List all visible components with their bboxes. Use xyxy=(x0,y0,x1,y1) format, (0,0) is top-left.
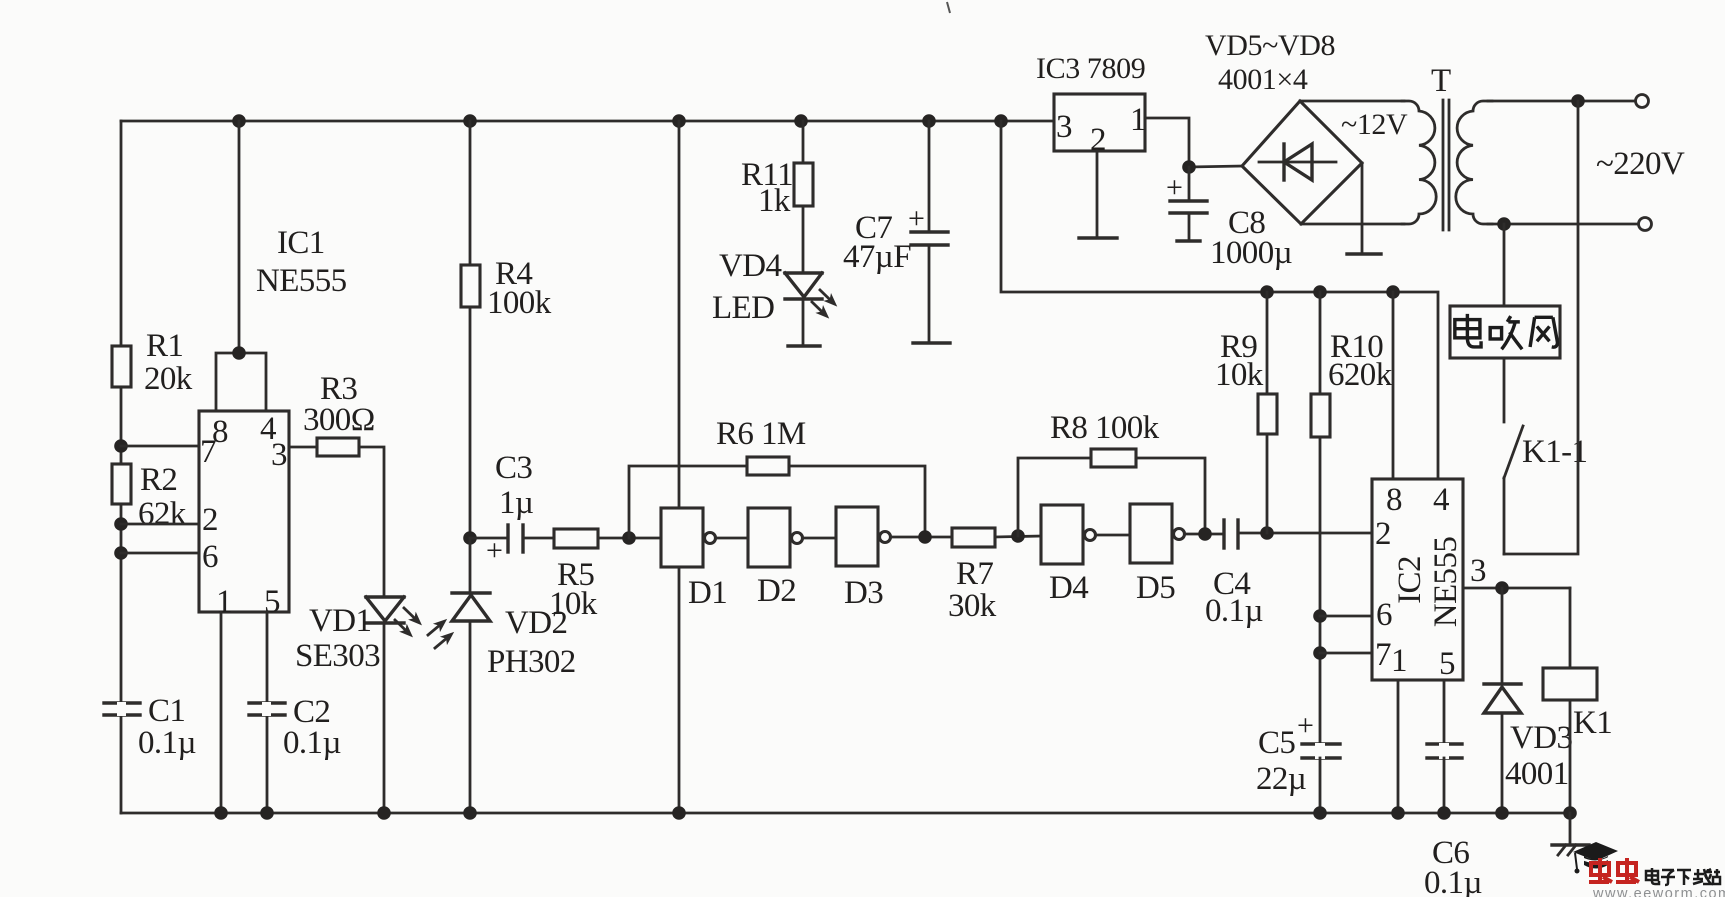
wire pin 7 stub IC2 xyxy=(1320,652,1372,655)
resistor R5 xyxy=(523,529,661,622)
svg-text:D4: D4 xyxy=(1049,570,1088,606)
wire pin 2 stub xyxy=(121,523,199,526)
wire +9V top rail xyxy=(121,120,1054,123)
svg-text:IC2: IC2 xyxy=(1392,556,1428,604)
gate D1 inverter xyxy=(661,508,727,611)
capacitor C6 xyxy=(1424,680,1482,897)
node VD1/ground junction xyxy=(377,806,391,820)
svg-text:1: 1 xyxy=(1391,643,1408,679)
wire D4 out to D5 in xyxy=(1096,534,1130,537)
svg-text:R2: R2 xyxy=(140,462,177,498)
node R2/pin2 junction xyxy=(114,517,128,531)
label 吹 (heater box char 2) xyxy=(1490,316,1522,349)
node top-rail / R4 junction xyxy=(463,114,477,128)
svg-text:7: 7 xyxy=(1375,637,1392,673)
watermark 载 small xyxy=(1693,869,1711,884)
wire pin 6 stub xyxy=(121,552,199,555)
wire IC1 pins 8-4 supply connector xyxy=(238,121,241,353)
svg-text:+: + xyxy=(1166,171,1183,204)
watermark 电 small xyxy=(1646,868,1659,884)
node 220V bottom / heater junction xyxy=(1497,217,1511,231)
svg-text:30k: 30k xyxy=(948,588,997,624)
svg-text:300Ω: 300Ω xyxy=(303,402,375,438)
svg-text:3: 3 xyxy=(1470,553,1487,589)
svg-text:0.1µ: 0.1µ xyxy=(138,725,196,761)
svg-text:2: 2 xyxy=(202,502,219,538)
resistor R8 feedback loop xyxy=(1018,410,1205,536)
node R9/pin2 junction xyxy=(1260,526,1274,540)
node top-rail / C7 junction xyxy=(922,114,936,128)
svg-text:0.1µ: 0.1µ xyxy=(1424,865,1482,897)
wire pin 5 down xyxy=(266,612,269,813)
node pin1 IC2/ground junction xyxy=(1391,806,1405,820)
node VD2/ground junction xyxy=(463,806,477,820)
op IC1 NE555 box xyxy=(199,411,289,612)
wire D1 out to D2 in xyxy=(716,537,748,540)
svg-text:IC1: IC1 xyxy=(277,225,325,261)
capacitor C2 xyxy=(249,694,341,761)
scan artifact top xyxy=(947,2,950,13)
node 220V top / K1-1 junction xyxy=(1571,94,1585,108)
load box heater (hair dryer) xyxy=(1450,224,1560,358)
wire D5 out to C4 xyxy=(1185,533,1224,536)
svg-text:1µ: 1µ xyxy=(499,485,533,521)
capacitor C4 xyxy=(1205,520,1263,629)
node R5/D1/R6 junction xyxy=(622,531,636,545)
VD2 light arrows xyxy=(424,615,450,639)
svg-text:T: T xyxy=(1431,63,1451,99)
node top-rail / D1 supply junction xyxy=(672,114,686,128)
svg-text:VD4: VD4 xyxy=(719,248,781,284)
capacitor C5 xyxy=(1256,709,1340,813)
wire IC2 pin 3 output xyxy=(1463,587,1570,590)
gate D5 inverter xyxy=(1130,504,1185,606)
wire D3 out to R7 xyxy=(891,536,952,539)
svg-text:2: 2 xyxy=(1375,516,1392,552)
wire IC2 pin 1 to ground xyxy=(1397,680,1400,813)
svg-text:D1: D1 xyxy=(688,575,727,611)
svg-text:www.eeworm.com: www.eeworm.com xyxy=(1592,886,1725,897)
svg-text:20k: 20k xyxy=(144,361,193,397)
node C2/ground junction xyxy=(260,806,274,820)
svg-text:47µF: 47µF xyxy=(843,239,911,275)
node VD3/ground junction xyxy=(1495,806,1509,820)
svg-text:NE555: NE555 xyxy=(1428,537,1464,628)
terminal 220V bottom xyxy=(1639,218,1652,231)
capacitor C3 xyxy=(470,450,533,567)
svg-text:0.1µ: 0.1µ xyxy=(283,725,341,761)
resistor R10 xyxy=(1311,292,1393,744)
svg-text:7: 7 xyxy=(200,434,217,470)
node top-rail / R11 junction xyxy=(794,114,808,128)
bridge rectifier VD5~VD8 xyxy=(1205,29,1362,224)
svg-text:IC3 7809: IC3 7809 xyxy=(1036,52,1145,85)
svg-text:VD5~VD8: VD5~VD8 xyxy=(1205,29,1335,62)
svg-text:C1: C1 xyxy=(148,693,185,729)
wire bridge top to transformer primary xyxy=(1300,100,1404,103)
svg-text:1: 1 xyxy=(216,584,233,620)
node R10/pin7 junction xyxy=(1313,646,1327,660)
svg-text:4001×4: 4001×4 xyxy=(1218,63,1308,96)
node top-rail / IC1 supply junction xyxy=(232,114,246,128)
wire secondary bottom to 220V terminal xyxy=(1488,223,1638,226)
terminal 220V top xyxy=(1636,95,1649,108)
svg-text:C3: C3 xyxy=(495,450,532,486)
wire IC3 pin 2 to ground xyxy=(1096,151,1099,238)
resistor R11 xyxy=(741,121,813,272)
node R1/pin7 junction xyxy=(114,439,128,453)
svg-text:620k: 620k xyxy=(1328,357,1393,393)
svg-text:22µ: 22µ xyxy=(1256,761,1306,797)
VD4 light arrows xyxy=(816,286,841,311)
watermark 子 small xyxy=(1661,870,1675,885)
node D5/R8 junction xyxy=(1198,527,1212,541)
resistor R9 xyxy=(1215,292,1277,533)
svg-text:1k: 1k xyxy=(758,183,791,219)
resistor R3 xyxy=(317,438,359,456)
resistor R4 xyxy=(461,121,552,538)
svg-text:6: 6 xyxy=(202,539,219,575)
wire pin 1 to ground xyxy=(220,612,223,813)
svg-text:D3: D3 xyxy=(844,575,883,611)
diode VD2 PH302 photodiode xyxy=(452,538,576,813)
wire R3 to VD1 xyxy=(359,447,384,596)
wire K1-1 return to 220V line xyxy=(1504,101,1578,554)
diode VD4 LED xyxy=(712,248,822,346)
node pin6 junction xyxy=(114,546,128,560)
wire ground bottom rail xyxy=(121,812,1570,815)
wire pin 6 stub IC2 xyxy=(1320,615,1372,618)
wire pin 3 stub xyxy=(289,446,317,449)
svg-text:62k: 62k xyxy=(138,496,187,532)
capacitor C8 xyxy=(1166,167,1292,271)
svg-text:10k: 10k xyxy=(1215,357,1264,393)
capacitor C7 xyxy=(843,121,948,342)
gate D3 inverter xyxy=(836,507,891,611)
svg-text:1000µ: 1000µ xyxy=(1210,235,1292,271)
wire IC2 pin 8 up to rail xyxy=(1392,292,1395,479)
svg-text:6: 6 xyxy=(1376,597,1393,633)
node R4/C3/VD2 junction xyxy=(463,531,477,545)
svg-text:D2: D2 xyxy=(757,573,796,609)
svg-text:+: + xyxy=(486,534,503,567)
op IC2 NE555 box xyxy=(1372,479,1464,680)
node D3/R6 junction xyxy=(918,530,932,544)
svg-text:D5: D5 xyxy=(1136,570,1175,606)
node +9V rail / R9 junction xyxy=(1260,285,1274,299)
svg-text:VD3: VD3 xyxy=(1510,720,1572,756)
VD1 light arrows xyxy=(400,604,426,629)
svg-text:PH302: PH302 xyxy=(487,644,576,680)
node +9V rail / R10 junction xyxy=(1313,285,1327,299)
wire VD1 to ground xyxy=(383,623,386,813)
ground bar bridge xyxy=(1347,252,1381,255)
watermark 虫 red char 2 xyxy=(1616,858,1639,882)
node C5/ground junction xyxy=(1313,806,1327,820)
svg-text:LED: LED xyxy=(712,290,774,326)
wire secondary top to 220V terminal xyxy=(1488,100,1635,103)
wire pin 7 stub xyxy=(121,445,199,448)
wire bridge bottom to transformer primary xyxy=(1301,223,1404,226)
svg-text:R7: R7 xyxy=(956,556,993,592)
wire C4 to IC2 pin 2 xyxy=(1238,532,1372,535)
resistor R6 feedback loop xyxy=(629,416,925,538)
node IC1 supply connector junction xyxy=(232,346,246,360)
svg-text:5: 5 xyxy=(1439,646,1456,682)
label 风 (heater box char 3) xyxy=(1530,317,1557,347)
node pin1/ground junction xyxy=(214,806,228,820)
resistor R2 xyxy=(112,464,131,504)
wire D1 supply from top rail xyxy=(678,121,681,508)
svg-text:4: 4 xyxy=(1433,482,1450,518)
svg-text:~220V: ~220V xyxy=(1596,146,1685,182)
diode VD3 4001 xyxy=(1484,588,1572,813)
svg-text:NE555: NE555 xyxy=(256,263,347,299)
svg-text:4001: 4001 xyxy=(1505,756,1569,792)
svg-text:0.1µ: 0.1µ xyxy=(1205,593,1263,629)
ground bar C7 xyxy=(913,341,950,344)
node C8 junction xyxy=(1182,160,1196,174)
wire IC3 pin 1 to bridge xyxy=(1145,118,1242,167)
watermark 虫 red char 1 xyxy=(1589,858,1612,882)
wire D2 out to D3 in xyxy=(803,537,836,540)
watermark 下 small xyxy=(1677,870,1691,885)
node C6/ground junction xyxy=(1437,806,1451,820)
svg-text:1: 1 xyxy=(1130,102,1147,138)
node D1 ground junction xyxy=(672,806,686,820)
earth ground symbol xyxy=(1552,813,1589,855)
svg-text:3: 3 xyxy=(271,437,288,473)
svg-text:VD1: VD1 xyxy=(309,603,371,639)
transformer T secondary winding xyxy=(1456,101,1492,224)
svg-text:100k: 100k xyxy=(487,285,552,321)
node R10/pin6 junction xyxy=(1313,609,1327,623)
gate D2 inverter xyxy=(748,508,803,609)
wire left vertical branch (V+ to R1 R2 C1) xyxy=(120,121,123,813)
svg-text:8: 8 xyxy=(1386,482,1403,518)
svg-text:SE303: SE303 xyxy=(295,638,380,674)
transformer T core xyxy=(1442,100,1445,230)
node top-rail / +9V feed junction xyxy=(994,114,1008,128)
watermark graduation cap xyxy=(1573,842,1618,874)
node pin3/VD3 junction xyxy=(1495,581,1509,595)
svg-text:C5: C5 xyxy=(1258,725,1295,761)
switch K1-1 xyxy=(1504,358,1587,554)
svg-text:R8 100k: R8 100k xyxy=(1050,410,1160,446)
svg-text:3: 3 xyxy=(1056,109,1073,145)
svg-text:R6 1M: R6 1M xyxy=(716,416,806,452)
gate D4 inverter xyxy=(1041,505,1096,606)
ground bar IC3 xyxy=(1079,236,1117,239)
relay coil K1 xyxy=(1543,588,1612,813)
capacitor C1 xyxy=(104,693,196,761)
ground bar VD4 xyxy=(788,344,820,347)
label 电 (heater box char 1) xyxy=(1455,314,1481,347)
node K1/ground junction xyxy=(1563,806,1577,820)
transformer T primary winding xyxy=(1402,101,1436,224)
regulator IC3 7809 xyxy=(1036,52,1145,151)
svg-text:+: + xyxy=(1297,709,1314,742)
wire +9V lower distribution rail xyxy=(1001,121,1438,479)
wire D1 to ground xyxy=(678,567,681,813)
wire bridge right corner to ground xyxy=(1361,163,1364,254)
watermark 站 small xyxy=(1703,869,1720,884)
svg-text:R1: R1 xyxy=(146,328,183,364)
node +9V rail / IC2 pin8 junction xyxy=(1386,285,1400,299)
svg-text:K1: K1 xyxy=(1573,705,1612,741)
resistor R7 xyxy=(948,528,1041,624)
svg-text:+: + xyxy=(908,202,925,235)
node R7/D4/R8 junction xyxy=(1011,529,1025,543)
svg-text:~12V: ~12V xyxy=(1341,108,1408,141)
resistor R1 xyxy=(112,346,131,387)
diode VD1 SE303 emitter LED xyxy=(295,597,404,674)
svg-text:10k: 10k xyxy=(549,586,598,622)
